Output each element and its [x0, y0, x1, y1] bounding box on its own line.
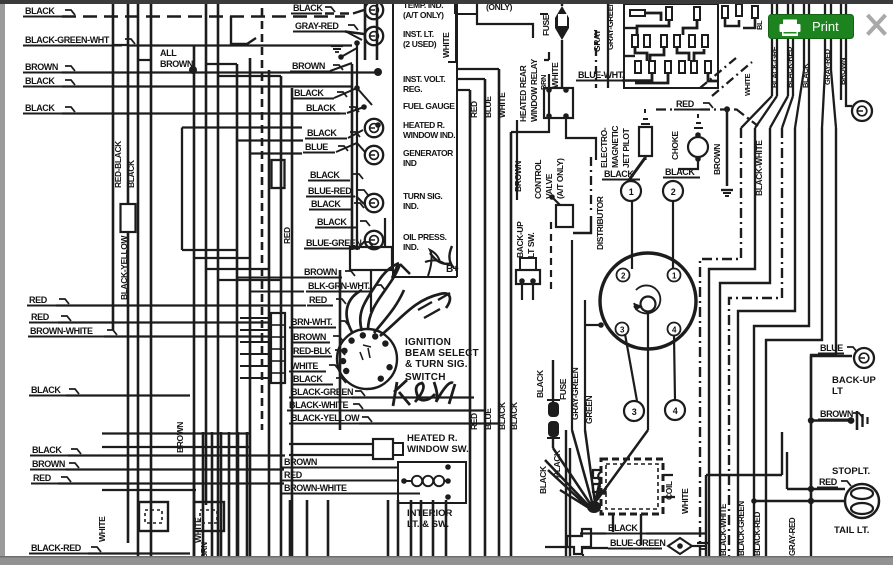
svg-text:WHITE: WHITE	[743, 73, 752, 96]
svg-text:BLACK: BLACK	[310, 170, 340, 180]
svg-text:BROWN: BROWN	[304, 267, 337, 277]
svg-text:BROWN: BROWN	[284, 457, 317, 467]
svg-text:BROWN: BROWN	[712, 144, 722, 175]
svg-text:BRN-WHT.: BRN-WHT.	[291, 317, 332, 327]
svg-text:& TURN SIG.: & TURN SIG.	[405, 359, 468, 370]
svg-text:BLACK: BLACK	[535, 369, 545, 398]
svg-text:BLACK: BLACK	[25, 103, 55, 113]
svg-text:BROWN: BROWN	[160, 59, 193, 69]
svg-text:FUSE: FUSE	[558, 378, 568, 400]
svg-text:BLACK: BLACK	[25, 6, 55, 16]
svg-text:TAIL LT.: TAIL LT.	[834, 525, 869, 536]
svg-text:BLACK: BLACK	[311, 199, 341, 209]
svg-text:LT SW.: LT SW.	[526, 233, 536, 258]
svg-text:GRAY-RED: GRAY-RED	[295, 21, 339, 31]
svg-text:BLUE-WHT.: BLUE-WHT.	[578, 70, 624, 80]
svg-text:BLACK-RED: BLACK-RED	[31, 543, 82, 553]
svg-text:BLACK-GREEN-WHT: BLACK-GREEN-WHT	[25, 35, 110, 45]
svg-text:(2 USED): (2 USED)	[403, 39, 437, 49]
svg-text:BACK-UP: BACK-UP	[832, 375, 876, 386]
svg-text:BLACK-RED: BLACK-RED	[785, 46, 794, 88]
svg-text:BROWN: BROWN	[292, 61, 325, 71]
svg-text:IND: IND	[403, 158, 417, 168]
svg-text:RED: RED	[31, 312, 50, 322]
svg-text:RED: RED	[469, 101, 479, 118]
svg-text:FUSE: FUSE	[541, 14, 551, 36]
svg-text:BROWN: BROWN	[838, 58, 847, 85]
svg-text:RED: RED	[309, 295, 328, 305]
svg-text:(A/T ONLY): (A/T ONLY)	[403, 10, 444, 20]
svg-text:RED: RED	[29, 295, 48, 305]
svg-text:BROWN: BROWN	[513, 161, 523, 192]
svg-text:BLUE: BLUE	[483, 408, 493, 430]
svg-text:WHITE: WHITE	[291, 361, 318, 371]
svg-text:WINDOW IND.: WINDOW IND.	[403, 130, 455, 140]
svg-text:RED: RED	[819, 477, 838, 487]
svg-text:INST. VOLT.: INST. VOLT.	[403, 74, 445, 84]
svg-text:HEATED R.: HEATED R.	[403, 120, 445, 130]
svg-text:4: 4	[673, 406, 678, 416]
svg-text:BROWN: BROWN	[32, 459, 65, 469]
svg-text:ALL: ALL	[160, 48, 177, 58]
svg-text:BLUE-GREEN: BLUE-GREEN	[610, 538, 666, 548]
svg-text:INST. LT.: INST. LT.	[403, 29, 434, 39]
svg-text:BLACK: BLACK	[317, 217, 347, 227]
svg-text:HEATED REAR: HEATED REAR	[518, 65, 528, 122]
svg-text:BL: BL	[755, 20, 764, 30]
svg-text:BEAM SELECT: BEAM SELECT	[405, 348, 479, 359]
svg-text:BLACK: BLACK	[293, 374, 323, 384]
svg-text:IGNITION: IGNITION	[405, 337, 451, 348]
svg-text:RED: RED	[284, 470, 303, 480]
svg-text:BLACK: BLACK	[538, 465, 548, 494]
svg-text:LT: LT	[832, 386, 843, 397]
svg-text:OIL PRESS.: OIL PRESS.	[403, 232, 447, 242]
svg-text:BLACK-GREEN: BLACK-GREEN	[737, 501, 746, 556]
svg-text:HEATED R.: HEATED R.	[407, 433, 458, 444]
svg-text:JET PILOT: JET PILOT	[621, 127, 631, 168]
svg-text:BROWN: BROWN	[293, 332, 326, 342]
svg-text:WHITE: WHITE	[680, 488, 690, 514]
svg-text:FUEL GAUGE: FUEL GAUGE	[403, 101, 455, 111]
svg-text:TURN SIG.: TURN SIG.	[403, 191, 442, 201]
svg-text:BLUE: BLUE	[483, 96, 493, 118]
svg-text:RED: RED	[676, 99, 695, 109]
svg-text:IND.: IND.	[403, 201, 418, 211]
svg-text:Print: Print	[812, 19, 839, 34]
svg-text:RED: RED	[282, 227, 292, 244]
svg-text:BLACK: BLACK	[31, 385, 61, 395]
svg-text:LT. & SW.: LT. & SW.	[407, 519, 449, 530]
svg-text:BLACK-WHITE: BLACK-WHITE	[754, 140, 764, 196]
svg-text:1: 1	[629, 187, 634, 197]
svg-text:BLACK-YELLOW: BLACK-YELLOW	[119, 234, 129, 300]
svg-text:BLACK-GRE: BLACK-GRE	[770, 46, 779, 88]
svg-text:BROWN-WHITE: BROWN-WHITE	[284, 483, 347, 493]
svg-text:BLACK: BLACK	[294, 88, 324, 98]
svg-text:GENERATOR: GENERATOR	[403, 148, 453, 158]
svg-text:2: 2	[671, 187, 676, 197]
svg-text:IND.: IND.	[403, 242, 418, 252]
svg-text:BLACK: BLACK	[293, 3, 323, 13]
svg-text:BROWN: BROWN	[820, 409, 853, 419]
svg-text:BROWN: BROWN	[25, 62, 58, 72]
svg-text:WINDOW SW.: WINDOW SW.	[407, 444, 469, 455]
svg-text:WHITE: WHITE	[441, 32, 451, 58]
svg-text:BLACK-YELLOW: BLACK-YELLOW	[291, 413, 360, 423]
svg-text:INTERIOR: INTERIOR	[407, 508, 453, 519]
svg-text:RED: RED	[469, 413, 479, 430]
svg-text:BLACK: BLACK	[608, 523, 638, 533]
svg-text:DISTRIBUTOR: DISTRIBUTOR	[595, 196, 605, 250]
svg-text:WHITE: WHITE	[497, 92, 507, 118]
svg-text:BLACK: BLACK	[497, 401, 507, 430]
svg-text:RED-BLK: RED-BLK	[293, 346, 332, 356]
svg-text:WHITE: WHITE	[97, 516, 107, 542]
svg-text:CONTROL: CONTROL	[533, 160, 543, 199]
svg-text:BROWN: BROWN	[175, 422, 185, 453]
svg-text:CHOKE: CHOKE	[670, 131, 680, 160]
svg-text:BLACK: BLACK	[32, 445, 62, 455]
svg-text:BLACK-RED: BLACK-RED	[753, 511, 762, 556]
svg-text:BLACK: BLACK	[306, 103, 336, 113]
svg-text:BLACK: BLACK	[509, 401, 519, 430]
svg-text:BLACK-WHITE: BLACK-WHITE	[719, 503, 728, 556]
svg-text:BLACK: BLACK	[126, 159, 136, 188]
svg-text:SWITCH: SWITCH	[405, 372, 446, 383]
svg-text:BLACK: BLACK	[25, 76, 55, 86]
svg-text:BLACK: BLACK	[307, 128, 337, 138]
svg-text:BROWN-WHITE: BROWN-WHITE	[30, 326, 93, 336]
svg-text:GRAY-RED: GRAY-RED	[788, 517, 797, 556]
svg-text:MAGNETIC: MAGNETIC	[610, 126, 620, 168]
svg-text:WINDOW RELAY: WINDOW RELAY	[529, 58, 539, 122]
svg-text:BACK-UP: BACK-UP	[515, 221, 525, 258]
svg-text:3: 3	[632, 407, 637, 417]
svg-text:REG.: REG.	[403, 84, 422, 94]
svg-text:BLUE: BLUE	[820, 343, 843, 353]
svg-text:WHITE: WHITE	[550, 62, 560, 88]
svg-text:STOPLT.: STOPLT.	[832, 466, 870, 477]
svg-text:RED-BLACK: RED-BLACK	[113, 140, 123, 188]
svg-text:ELECTRO-: ELECTRO-	[599, 127, 609, 168]
svg-text:RED: RED	[33, 473, 52, 483]
svg-text:BLACK-GREEN: BLACK-GREEN	[291, 387, 353, 397]
svg-text:BLUE-RED: BLUE-RED	[308, 186, 352, 196]
svg-text:(A/T ONLY): (A/T ONLY)	[555, 158, 565, 199]
svg-text:BLUE: BLUE	[305, 142, 328, 152]
